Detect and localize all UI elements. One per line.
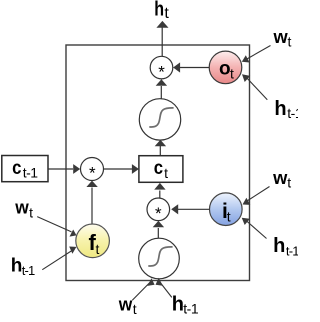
multiply node (top *) (150, 56, 173, 81)
svg-text:t: t (288, 34, 292, 50)
label w_t (top right) (272, 27, 291, 50)
svg-text:h: h (172, 293, 184, 315)
svg-text:h: h (273, 235, 285, 257)
svg-text:t: t (96, 241, 100, 257)
svg-text:w: w (272, 27, 288, 47)
svg-text:c: c (12, 158, 22, 179)
wire bottom sigmoid up to lower multiply (157, 228, 159, 238)
svg-text:t: t (227, 209, 231, 225)
arrowhead h_t-1 into i_t (242, 218, 250, 225)
wire lower multiply up to c_t (159, 191, 161, 199)
arrowhead into lower multiply from bottom sigmoid (153, 221, 164, 228)
arrowhead h_t-1 into bottom sigmoid (156, 278, 163, 286)
svg-text:t: t (164, 165, 168, 181)
svg-text:t: t (133, 301, 137, 317)
svg-text:t-1: t-1 (22, 263, 35, 278)
arrowhead into c_t bottom (154, 183, 165, 190)
svg-text:h: h (154, 0, 164, 20)
node o_t (output gate) (209, 51, 242, 84)
wire c_t up to sigmoid (159, 146, 161, 156)
wire left multiply to c_t (104, 168, 132, 170)
arrowhead into left multiply (73, 164, 80, 174)
node i_t (input gate) (210, 193, 243, 226)
arrowhead h_t-1 into o_t (242, 74, 250, 82)
svg-text:h: h (11, 256, 23, 277)
sigmoid node (bottom squash) (139, 238, 180, 279)
svg-text:w: w (14, 198, 29, 218)
svg-text:t: t (287, 175, 291, 191)
wire w_t bottom to sigmoid (132, 283, 149, 301)
svg-text:o: o (219, 59, 231, 80)
wire o_t to top multiply (180, 67, 209, 69)
label h_t-1 (right, upper) (274, 98, 302, 121)
cell boundary rectangle (66, 45, 250, 281)
label h_t (top output) (154, 0, 169, 22)
svg-text:t-1: t-1 (287, 105, 298, 121)
arrowhead h_t (156, 21, 168, 28)
wire sigmoid up to top multiply (160, 86, 162, 99)
sigmoid node (upper squash) (139, 99, 180, 140)
svg-text:t-1: t-1 (23, 164, 39, 180)
svg-text:h: h (274, 98, 286, 120)
wire w_t to o_t (246, 46, 271, 60)
arrowhead into lower multiply (171, 204, 178, 214)
svg-text:t: t (230, 66, 234, 82)
label h_t-1 (left) (11, 256, 35, 279)
arrowhead w_t into bottom sigmoid (147, 278, 154, 286)
arrowhead w_t into f_t (70, 230, 77, 237)
wire c_t-1 to left multiply (48, 168, 73, 170)
multiply node (lower *) (147, 198, 170, 223)
label h_t-1 (right lower) (273, 235, 299, 259)
svg-text:*: * (155, 204, 162, 223)
svg-text:t: t (164, 5, 169, 22)
wire w_t to f_t (37, 217, 71, 232)
label h_t-1 (bottom) (172, 293, 199, 316)
svg-text:w: w (272, 168, 288, 188)
arrowhead h_t-1 into f_t (69, 247, 76, 254)
arrowhead into sigmoid from c_t (155, 140, 166, 147)
arrowhead into top multiply (173, 62, 180, 72)
svg-text:t-1: t-1 (183, 301, 199, 317)
arrowhead w_t into o_t (242, 55, 250, 62)
wire h_t up from multiply node (161, 27, 163, 57)
wire h_t-1 bottom to sigmoid (161, 283, 172, 297)
box c_t-1 (previous cell state) (2, 156, 48, 182)
label w_t (bottom) (118, 294, 137, 317)
svg-text:t: t (29, 205, 33, 221)
label w_t (left) (14, 198, 33, 221)
svg-text:c: c (154, 158, 164, 179)
arrowhead into top multiply from sigmoid (156, 79, 167, 86)
node f_t (forget gate) (76, 224, 110, 258)
box c_t (cell state) (139, 156, 183, 183)
arrowhead w_t into i_t (243, 198, 251, 205)
svg-text:w: w (118, 294, 133, 314)
wire i_t to lower multiply (178, 208, 210, 210)
multiply node (left *) (81, 158, 104, 183)
wire h_t-1 to o_t (246, 77, 267, 100)
svg-text:*: * (89, 164, 96, 183)
wire f_t up to left multiply (91, 188, 93, 225)
svg-text:t-1: t-1 (286, 244, 298, 259)
wire h_t-1 to f_t (42, 251, 72, 270)
wire h_t-1 to i_t (246, 221, 267, 239)
wire w_t to i_t (247, 187, 270, 202)
label w_t (right middle) (272, 168, 291, 191)
arrowhead into left multiply from f_t (86, 181, 97, 187)
arrowhead into c_t from left multiply (132, 164, 139, 174)
svg-text:*: * (158, 63, 165, 82)
